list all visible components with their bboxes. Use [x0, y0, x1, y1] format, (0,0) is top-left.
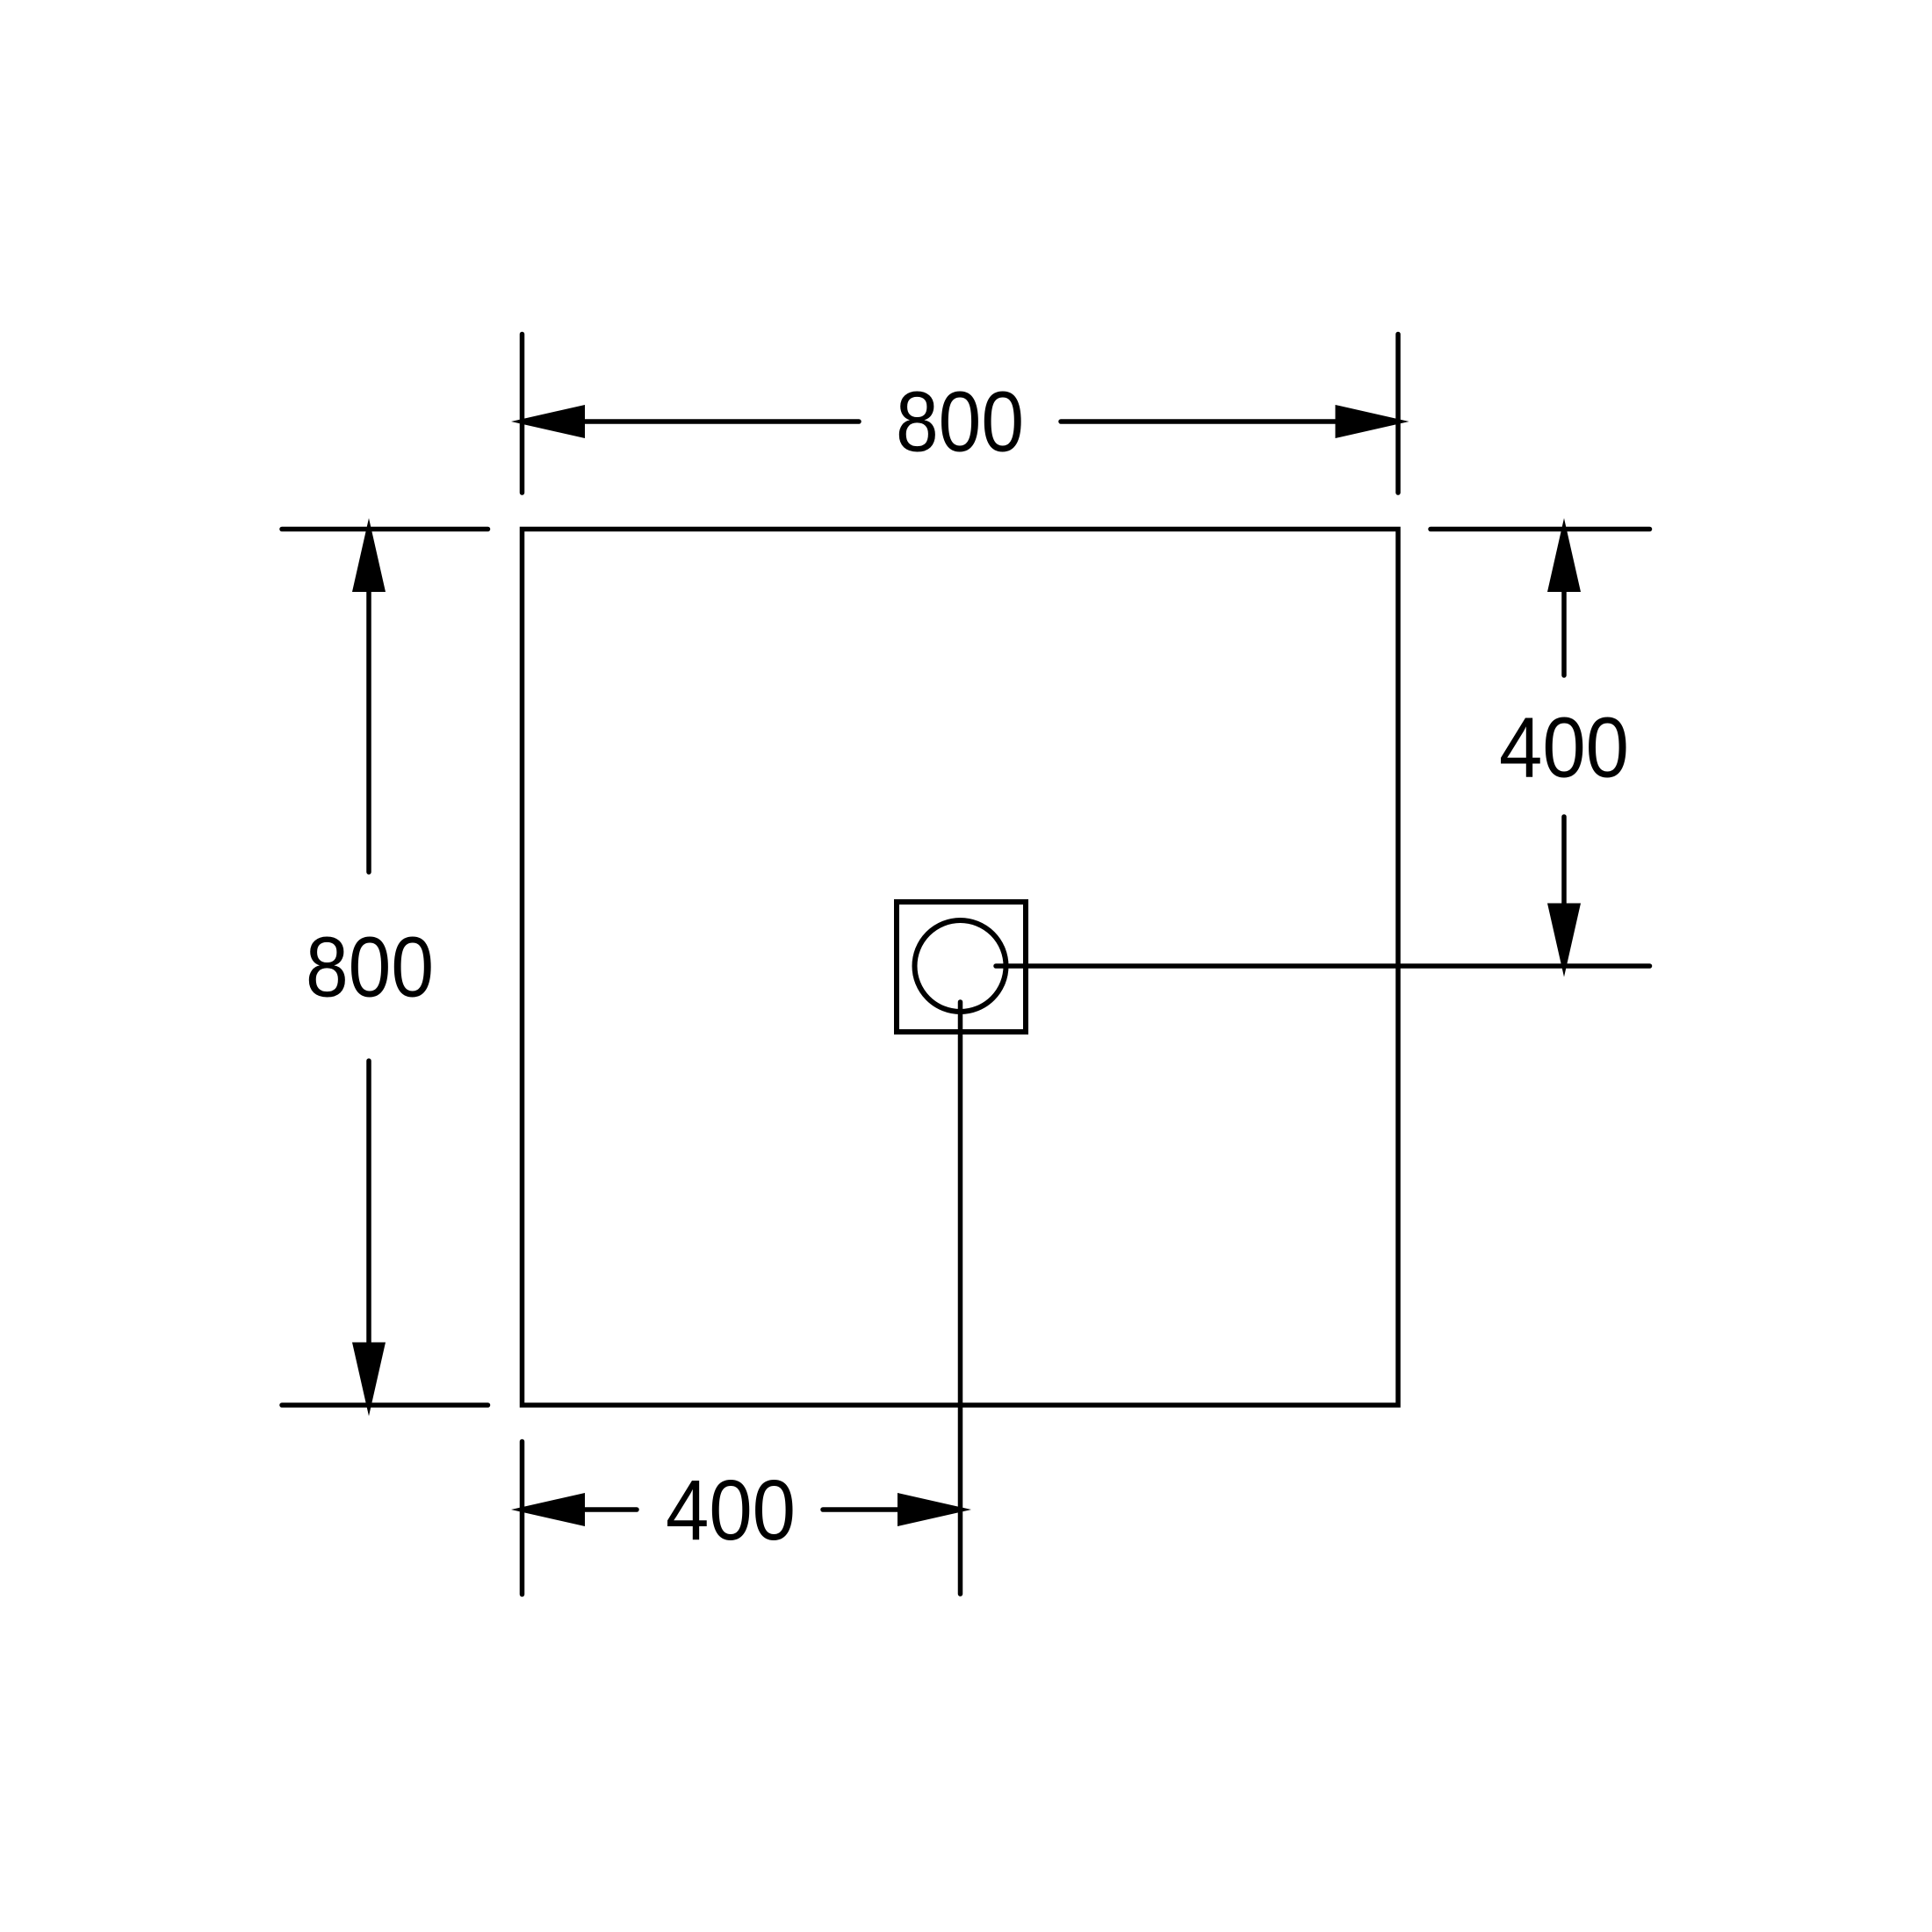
svg-text:800: 800 [896, 374, 1024, 470]
svg-text:400: 400 [1499, 700, 1629, 796]
svg-text:800: 800 [306, 919, 434, 1015]
svg-text:400: 400 [666, 1462, 796, 1558]
